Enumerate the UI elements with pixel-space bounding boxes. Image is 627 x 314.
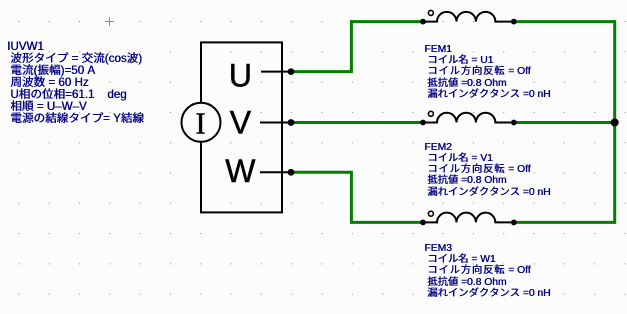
wire W phase (source W to FEM3)	[291, 172, 423, 222]
inductor FEM2 coil	[420, 111, 517, 125]
junction neutral node	[611, 119, 619, 127]
label FEM2 coil parameters	[424, 142, 550, 198]
pin U stub	[261, 71, 291, 73]
svg-text:W: W	[225, 153, 256, 189]
label FEM1 coil parameters	[424, 44, 550, 100]
wire FEM2 output to neutral rail	[514, 121, 615, 124]
terminal label V	[230, 105, 252, 141]
svg-text:V: V	[230, 105, 252, 141]
wire V phase (source V to FEM2)	[291, 121, 423, 124]
current source circle symbol	[182, 103, 221, 142]
three-phase current source IUVW1 body	[201, 42, 282, 212]
wire FEM3 output to neutral rail	[514, 221, 615, 224]
wire neutral rail (Y-connection)	[613, 20, 616, 224]
node V terminal	[288, 119, 295, 126]
svg-text:U: U	[229, 58, 252, 94]
inductor FEM1 coil	[420, 10, 517, 24]
terminal label W	[225, 153, 256, 189]
svg-text:I: I	[195, 106, 205, 141]
origin marker	[105, 17, 114, 26]
wire FEM1 output to neutral rail	[514, 20, 615, 23]
node W terminal	[288, 169, 295, 176]
inductor FEM3 coil	[420, 211, 517, 225]
node U terminal	[288, 68, 295, 75]
terminal label U	[229, 58, 252, 94]
label FEM3 coil parameters	[424, 243, 550, 299]
wire U phase (source U to FEM1)	[291, 22, 423, 72]
pin V stub	[260, 122, 291, 124]
pin W stub	[260, 171, 291, 173]
label IUVW1 source parameters	[7, 41, 144, 125]
